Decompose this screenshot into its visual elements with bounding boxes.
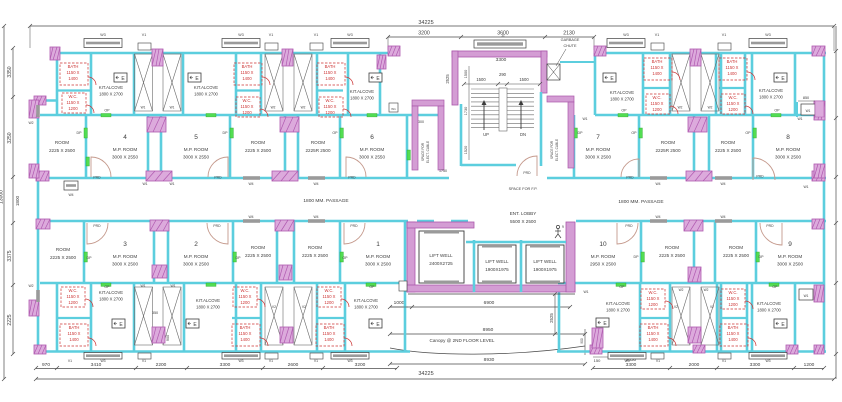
svg-text:3000 X 2500: 3000 X 2500: [775, 155, 802, 160]
stair up arrow: [483, 102, 485, 130]
svg-text:2225 X 2500: 2225 X 2500: [659, 253, 686, 258]
shaft duct hatch bottom right pair: [672, 287, 690, 345]
columns on passage upper wall: [146, 171, 172, 181]
svg-text:8930: 8930: [484, 357, 495, 363]
svg-text:900: 900: [580, 338, 584, 344]
svg-text:1800: 1800: [15, 195, 20, 206]
svg-text:34225: 34225: [418, 371, 433, 377]
svg-text:W4: W4: [655, 182, 660, 186]
svg-text:W4: W4: [313, 182, 318, 186]
svg-text:M.P. ROOM: M.P. ROOM: [591, 254, 616, 259]
svg-text:3200: 3200: [418, 31, 430, 37]
boxes left of lift block: [399, 281, 407, 291]
svg-text:2130: 2130: [563, 31, 575, 37]
shaft duct hatch bottom between flats 3 and 2: [135, 287, 153, 345]
svg-text:W2: W2: [301, 106, 306, 110]
svg-text:3000 X 2500: 3000 X 2500: [777, 262, 804, 267]
svg-text:W1: W1: [391, 107, 396, 111]
electrical closet left of stair: [412, 100, 444, 106]
svg-text:PRD: PRD: [523, 171, 531, 175]
svg-text:ROOM: ROOM: [661, 140, 675, 145]
wall x595 top band right: [594, 53, 597, 115]
passage upper wall: [36, 177, 449, 180]
canopy slab edge under lift block: [408, 293, 575, 295]
svg-text:2525: 2525: [445, 74, 450, 84]
svg-text:1800 X 2700: 1800 X 2700: [99, 297, 123, 302]
room label top left ROOM 2225x2500: [49, 140, 76, 153]
door flat 10: [617, 223, 638, 244]
svg-text:3000 X 2550: 3000 X 2550: [112, 155, 139, 160]
svg-text:W2: W2: [679, 288, 684, 292]
svg-text:1400: 1400: [242, 76, 252, 81]
flat 2 label: [183, 241, 210, 267]
door flat 8: [753, 158, 775, 180]
svg-text:3000 X 2550: 3000 X 2550: [183, 155, 210, 160]
svg-text:1900X1975: 1900X1975: [533, 267, 557, 272]
svg-text:1200: 1200: [652, 107, 662, 112]
top exterior wall left section: [52, 52, 399, 55]
wall x317 top band: [316, 52, 319, 115]
svg-text:OP: OP: [631, 131, 637, 135]
svg-text:W1: W1: [142, 182, 147, 186]
svg-text:1150 X: 1150 X: [324, 70, 337, 75]
svg-text:KIT.ALCOVE: KIT.ALCOVE: [196, 298, 220, 303]
top row room divider walls: [85, 115, 88, 178]
svg-text:1800 X 2700: 1800 X 2700: [194, 92, 218, 97]
svg-text:V1: V1: [656, 359, 660, 363]
svg-text:1000: 1000: [394, 300, 405, 306]
svg-text:V1: V1: [314, 359, 318, 363]
svg-text:1400: 1400: [325, 76, 335, 81]
svg-text:OP: OP: [342, 256, 348, 260]
svg-text:3350: 3350: [7, 66, 13, 77]
svg-text:M.P. ROOM: M.P. ROOM: [360, 147, 385, 152]
svg-text:1800 X 2700: 1800 X 2700: [354, 305, 378, 310]
wall x236 top band: [235, 52, 238, 115]
svg-text:V1: V1: [722, 359, 726, 363]
svg-text:M.P. ROOM: M.P. ROOM: [184, 254, 209, 259]
svg-text:V1: V1: [269, 33, 273, 37]
svg-text:2525: 2525: [549, 313, 554, 323]
svg-text:3000 X 2500: 3000 X 2500: [112, 262, 139, 267]
svg-text:3375: 3375: [7, 250, 13, 261]
flat 5 label: [183, 134, 210, 160]
svg-text:1200: 1200: [804, 362, 815, 368]
svg-text:1200: 1200: [240, 300, 250, 305]
svg-text:KIT.ALCOVE: KIT.ALCOVE: [759, 88, 783, 93]
door flat 1: [344, 223, 365, 244]
svg-text:W.C.: W.C.: [652, 95, 661, 100]
electrical closet right of stair: [547, 96, 574, 102]
kit alcove labels bottom row: [99, 290, 124, 302]
svg-text:W3: W3: [623, 33, 628, 37]
door flat 9: [760, 223, 782, 245]
svg-text:BATH: BATH: [727, 59, 738, 64]
door flat 4: [91, 157, 111, 177]
entrance lobby label: [510, 211, 537, 224]
lift lobby cyan walls: [473, 240, 476, 292]
top row mid wall between service band and rooms: [40, 114, 441, 117]
svg-text:3200: 3200: [355, 362, 366, 368]
wall x721 top band right: [720, 53, 723, 115]
svg-text:1800 X 2700: 1800 X 2700: [99, 92, 123, 97]
bottom dimension line left 970/3410/2200/3300/2600/3200: [36, 368, 397, 370]
svg-text:900: 900: [166, 335, 170, 341]
svg-text:1150 X: 1150 X: [726, 65, 739, 70]
wall x261 top band: [260, 52, 263, 115]
garbage chute area: [560, 61, 594, 63]
svg-text:3000 X 2550: 3000 X 2550: [359, 155, 386, 160]
svg-text:W.C.: W.C.: [648, 290, 657, 295]
svg-text:CHUTE: CHUTE: [563, 44, 577, 48]
svg-text:W1: W1: [170, 284, 175, 288]
svg-text:V1: V1: [722, 33, 726, 37]
svg-text:LIFT WELL: LIFT WELL: [533, 259, 557, 264]
svg-text:3000 X 2500: 3000 X 2500: [183, 262, 210, 267]
flat 4 label: [112, 134, 139, 160]
svg-text:2600: 2600: [288, 362, 299, 368]
right side niche flat 8: [796, 102, 798, 117]
shaft duct hatch between flats 7 and 8: [672, 54, 690, 111]
lift block outer magenta walls: [407, 222, 415, 292]
bottom row service band vertical walls: [56, 283, 59, 352]
svg-text:OP: OP: [369, 285, 375, 289]
kit alcove labels top row: [99, 85, 124, 97]
bath WC red boxes top row: [60, 63, 96, 85]
overall top dimension line 34225: [30, 25, 834, 27]
left secondary dimension line with room heights: [12, 48, 14, 354]
svg-text:DP: DP: [87, 256, 93, 260]
right dimension line: [835, 26, 837, 379]
wall x91 top band: [90, 52, 93, 115]
svg-text:KIT.ALCOVE: KIT.ALCOVE: [350, 89, 374, 94]
svg-text:BATH: BATH: [242, 64, 253, 69]
svg-text:KIT.ALCOVE: KIT.ALCOVE: [194, 85, 218, 90]
wall right of room 6: [406, 115, 409, 178]
bottom exterior wall right section: [557, 350, 826, 353]
svg-text:DP: DP: [236, 256, 242, 260]
top secondary dimension line 3200/3600/2130: [388, 36, 594, 38]
svg-text:ROOM: ROOM: [311, 140, 325, 145]
svg-text:3000 X 2500: 3000 X 2500: [585, 155, 612, 160]
svg-text:1750: 1750: [439, 169, 447, 173]
svg-text:ROOM: ROOM: [665, 245, 679, 250]
svg-text:PRD: PRD: [350, 224, 358, 228]
svg-text:2225 X 2500: 2225 X 2500: [723, 253, 750, 258]
flat 10 kitchen left wall: [558, 292, 561, 351]
svg-text:PRD: PRD: [756, 175, 764, 179]
svg-text:1400: 1400: [727, 71, 737, 76]
bottom exterior wall left section: [36, 350, 410, 353]
room label bottom middle: [302, 245, 329, 258]
svg-text:1400: 1400: [728, 337, 738, 342]
svg-text:SPACE FOR: SPACE FOR: [421, 142, 425, 161]
columns along bottom exterior wall: [34, 345, 46, 354]
svg-text:9: 9: [562, 225, 564, 229]
bath-wc divider walls bottom row: [57, 317, 91, 319]
wall x795 top band right: [794, 53, 797, 115]
door flat 2: [207, 223, 228, 244]
flat 6 label: [359, 134, 386, 160]
svg-text:2225 X 2500: 2225 X 2500: [302, 253, 329, 258]
svg-text:8: 8: [786, 134, 790, 141]
svg-text:1500: 1500: [519, 77, 529, 82]
room label ROOM 2225R top middle: [305, 140, 330, 153]
top-left corner step wall: [36, 99, 58, 102]
svg-text:3: 3: [123, 241, 127, 248]
svg-text:V2: V2: [272, 305, 276, 309]
svg-text:6: 6: [370, 134, 374, 141]
svg-text:1150 X: 1150 X: [67, 70, 80, 75]
svg-text:1150 X: 1150 X: [323, 294, 336, 299]
svg-text:1200: 1200: [68, 300, 78, 305]
svg-text:UP: UP: [483, 132, 489, 137]
svg-text:1150 X: 1150 X: [67, 100, 80, 105]
W4 box left end of passage: [64, 181, 78, 190]
svg-text:1150 X: 1150 X: [239, 294, 252, 299]
svg-text:W4: W4: [720, 182, 725, 186]
right exterior wall: [823, 51, 826, 353]
svg-text:BATH: BATH: [728, 325, 739, 330]
svg-text:1800 X 2700: 1800 X 2700: [606, 308, 630, 313]
svg-text:OP: OP: [332, 131, 338, 135]
shaft duct hatch bottom between flats 2 and 1: [265, 287, 283, 345]
svg-text:M.P. ROOM: M.P. ROOM: [778, 254, 803, 259]
svg-text:W1: W1: [141, 106, 146, 110]
svg-text:350: 350: [152, 311, 158, 315]
wall x134 top band: [133, 52, 136, 115]
svg-text:5500 X 2500: 5500 X 2500: [510, 219, 537, 224]
stair central stringer: [499, 88, 507, 131]
svg-text:W3: W3: [238, 359, 243, 363]
columns on passage lower wall: [36, 219, 50, 229]
svg-text:ROOM: ROOM: [729, 245, 743, 250]
svg-text:2225 X 2500: 2225 X 2500: [715, 148, 742, 153]
svg-text:W2: W2: [271, 106, 276, 110]
svg-text:KIT.ALCOVE: KIT.ALCOVE: [606, 301, 630, 306]
door flat 7 area: [621, 159, 639, 177]
bottom row mid wall: [40, 282, 405, 285]
svg-text:W.C.: W.C.: [728, 95, 737, 100]
lift well small 1 1900x1975: [478, 245, 516, 283]
svg-text:KIT.ALCOVE: KIT.ALCOVE: [354, 298, 378, 303]
svg-text:KIT.ALCOVE: KIT.ALCOVE: [757, 301, 781, 306]
svg-text:W1: W1: [806, 109, 811, 113]
svg-text:1150 X: 1150 X: [647, 296, 660, 301]
svg-text:1200: 1200: [68, 106, 78, 111]
room label bottom left ROOM 2225x2500: [50, 247, 77, 260]
svg-text:OP: OP: [104, 109, 110, 113]
svg-text:3250: 3250: [7, 132, 13, 143]
svg-text:LIFT WELL: LIFT WELL: [485, 259, 509, 264]
bath-wc divider walls top row: [57, 89, 91, 91]
svg-text:V1: V1: [314, 33, 318, 37]
door flat 3: [87, 223, 108, 244]
svg-text:BATH: BATH: [652, 59, 663, 64]
svg-text:W1: W1: [582, 117, 587, 121]
svg-text:W2: W2: [708, 106, 713, 110]
svg-text:2225 X 2500: 2225 X 2500: [50, 255, 77, 260]
svg-text:W1: W1: [169, 182, 174, 186]
svg-text:W2: W2: [28, 121, 33, 125]
svg-text:W1: W1: [803, 185, 808, 189]
svg-text:1800 MM. PASSAGE: 1800 MM. PASSAGE: [618, 199, 663, 205]
svg-text:1800 MM. PASSAGE: 1800 MM. PASSAGE: [303, 198, 348, 204]
green DP OP markers: [84, 128, 87, 138]
svg-text:Canopy @ 2ND FLOOR LEVEL: Canopy @ 2ND FLOOR LEVEL: [430, 338, 495, 343]
columns along top exterior wall: [50, 47, 60, 60]
stair down arrow: [520, 102, 522, 129]
flat 3 label: [112, 241, 139, 267]
door flat 5: [208, 157, 228, 177]
svg-text:PRD: PRD: [766, 224, 774, 228]
svg-text:KIT.ALCOVE: KIT.ALCOVE: [99, 290, 123, 295]
flat 9 label: [777, 241, 804, 267]
dimension 8930: [390, 363, 585, 365]
svg-text:1400: 1400: [648, 337, 658, 342]
svg-text:2225: 2225: [7, 314, 13, 325]
stair lower cyan walls: [460, 104, 463, 166]
door flat 6: [346, 157, 366, 177]
svg-text:1150 X: 1150 X: [324, 104, 337, 109]
passage lower wall: [36, 220, 408, 223]
door stair to passage: [517, 156, 537, 176]
svg-text:1500: 1500: [464, 70, 468, 78]
svg-text:150: 150: [594, 358, 601, 363]
svg-text:1200: 1200: [324, 300, 334, 305]
svg-text:2: 2: [194, 241, 198, 248]
svg-text:BATH: BATH: [324, 325, 335, 330]
dimension 150 and 2330 under flat 10: [593, 356, 610, 358]
bottom overall dimension line 34225: [36, 378, 834, 380]
svg-text:W.C.: W.C.: [324, 288, 333, 293]
svg-text:1200: 1200: [325, 110, 335, 115]
svg-text:W3: W3: [347, 33, 352, 37]
svg-text:1800 X 2700: 1800 X 2700: [350, 96, 374, 101]
svg-text:1400: 1400: [68, 76, 78, 81]
svg-text:ROOM: ROOM: [251, 140, 265, 145]
svg-text:ROOM: ROOM: [308, 245, 322, 250]
room label left of flat 9: [723, 245, 750, 258]
svg-text:DP: DP: [223, 131, 229, 135]
svg-text:2225R 2500: 2225R 2500: [305, 148, 330, 153]
svg-text:SPACE FOR: SPACE FOR: [550, 140, 554, 159]
svg-text:1150 X: 1150 X: [727, 101, 740, 106]
svg-text:1400: 1400: [652, 71, 662, 76]
svg-text:1150 X: 1150 X: [239, 331, 252, 336]
svg-text:W3: W3: [100, 359, 105, 363]
svg-text:OP: OP: [774, 109, 780, 113]
svg-text:W1: W1: [797, 117, 802, 121]
room label ROOM 2225 top middle-left: [245, 140, 272, 153]
svg-text:5: 5: [194, 134, 198, 141]
E meter boxes bottom row: [112, 319, 125, 328]
svg-text:1800 X 2700: 1800 X 2700: [196, 305, 220, 310]
columns on left exterior wall: [29, 100, 39, 118]
room label bottom middle-left: [245, 245, 272, 258]
svg-text:SPACE FOR F.P.: SPACE FOR F.P.: [509, 187, 538, 191]
svg-text:300: 300: [418, 120, 424, 124]
svg-text:W1: W1: [170, 106, 175, 110]
svg-text:V1: V1: [655, 33, 659, 37]
dimension 8950: [390, 333, 585, 335]
lobby stick figure symbol: [555, 225, 561, 238]
window segments on left exterior wall: [36, 105, 40, 117]
svg-text:W1: W1: [804, 294, 809, 298]
flat 1 kitchen right wall: [404, 221, 407, 352]
svg-text:1150 X: 1150 X: [727, 296, 740, 301]
stair landing slab J1: [474, 40, 526, 48]
svg-text:1400: 1400: [69, 337, 79, 342]
svg-text:1800 X 2700: 1800 X 2700: [610, 97, 634, 102]
wall x752 top band right: [751, 53, 754, 115]
svg-text:1150 X: 1150 X: [241, 104, 254, 109]
svg-text:W4: W4: [248, 215, 253, 219]
lift well large 2400x2725: [419, 231, 464, 283]
bottom row room divider walls: [83, 221, 86, 283]
svg-text:PRD: PRD: [213, 224, 221, 228]
bottom dimension line right 3300/2000/3300/1200: [593, 368, 824, 370]
svg-text:850: 850: [803, 96, 809, 100]
wall x745 top band right: [744, 53, 747, 115]
svg-text:BATH: BATH: [648, 325, 659, 330]
svg-text:OP: OP: [745, 131, 751, 135]
svg-text:W.C.: W.C.: [68, 288, 77, 293]
svg-text:DP: DP: [77, 131, 83, 135]
svg-text:OP: OP: [104, 285, 110, 289]
svg-text:KIT.ALCOVE: KIT.ALCOVE: [99, 85, 123, 90]
svg-text:1200: 1200: [648, 302, 658, 307]
svg-text:V2: V2: [710, 305, 714, 309]
svg-text:2200: 2200: [156, 362, 167, 368]
wall x643 top band right: [642, 53, 645, 115]
svg-text:3300: 3300: [220, 362, 231, 368]
svg-text:ROOM: ROOM: [251, 245, 265, 250]
svg-text:2225 X 2500: 2225 X 2500: [49, 148, 76, 153]
svg-text:1: 1: [376, 241, 380, 248]
svg-text:6900: 6900: [484, 300, 495, 306]
svg-text:3000 X 2500: 3000 X 2500: [365, 262, 392, 267]
svg-text:1200: 1200: [242, 110, 252, 115]
wall x183 top band: [182, 52, 185, 115]
right side niche flat 9 bottom: [799, 289, 813, 300]
svg-text:KIT.ALCOVE: KIT.ALCOVE: [610, 90, 634, 95]
left exterior wall: [37, 99, 40, 353]
svg-text:1900X1975: 1900X1975: [485, 267, 509, 272]
svg-text:W3: W3: [624, 359, 629, 363]
svg-text:2000: 2000: [689, 362, 700, 368]
svg-text:V1: V1: [68, 359, 72, 363]
svg-text:OP: OP: [772, 285, 778, 289]
svg-text:1400: 1400: [240, 337, 250, 342]
svg-text:V2: V2: [302, 305, 306, 309]
svg-text:W2: W2: [678, 106, 683, 110]
svg-text:W3: W3: [100, 33, 105, 37]
svg-text:DP: DP: [578, 131, 584, 135]
small vent marks above top wall: [138, 43, 151, 50]
svg-text:V2: V2: [674, 305, 678, 309]
svg-text:ELECT. CABLE: ELECT. CABLE: [555, 139, 559, 161]
svg-text:1150 X: 1150 X: [651, 65, 664, 70]
svg-text:V1: V1: [269, 359, 273, 363]
svg-text:W.C.: W.C.: [242, 98, 251, 103]
svg-text:W.C.: W.C.: [728, 290, 737, 295]
svg-text:M.P. ROOM: M.P. ROOM: [776, 147, 801, 152]
svg-text:2400X2725: 2400X2725: [429, 261, 453, 266]
svg-text:W3: W3: [765, 359, 770, 363]
svg-text:M.P. ROOM: M.P. ROOM: [113, 147, 138, 152]
dimension 1000 near flat 1 kitchen: [390, 306, 408, 308]
